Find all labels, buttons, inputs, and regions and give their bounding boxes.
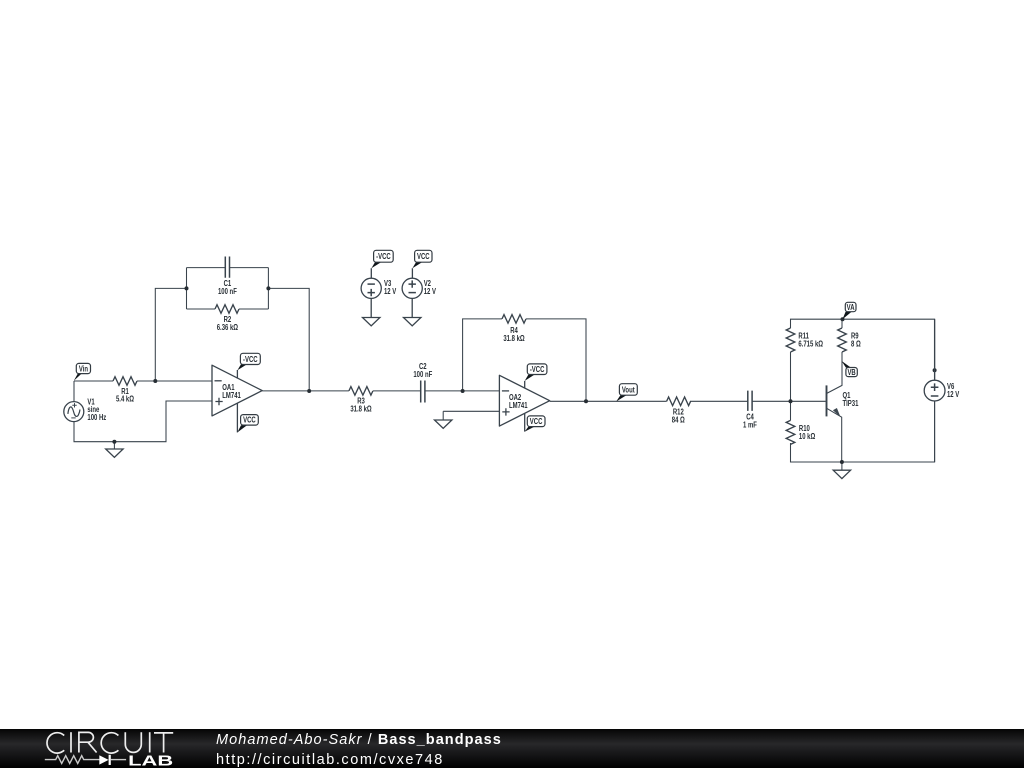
- svg-text:Vout: Vout: [622, 385, 635, 394]
- svg-text:1 mF: 1 mF: [743, 420, 757, 429]
- svg-text:31.8 kΩ: 31.8 kΩ: [350, 404, 372, 413]
- svg-text:VCC: VCC: [243, 416, 256, 425]
- svg-text:5.4 kΩ: 5.4 kΩ: [116, 395, 134, 404]
- svg-text:100 Hz: 100 Hz: [87, 413, 106, 422]
- svg-text:10 kΩ: 10 kΩ: [799, 432, 816, 441]
- svg-text:84 Ω: 84 Ω: [672, 415, 685, 424]
- svg-text:100 nF: 100 nF: [413, 370, 432, 379]
- svg-text:VCC: VCC: [530, 417, 543, 426]
- svg-text:TIP31: TIP31: [843, 399, 859, 408]
- svg-text:LM741: LM741: [222, 391, 241, 400]
- svg-text:8 Ω: 8 Ω: [851, 340, 861, 349]
- svg-text:-VCC: -VCC: [530, 365, 545, 374]
- svg-text:Vin: Vin: [79, 364, 88, 373]
- svg-text:100 nF: 100 nF: [218, 287, 237, 296]
- svg-text:LM741: LM741: [509, 401, 528, 410]
- svg-text:6.715 kΩ: 6.715 kΩ: [798, 340, 823, 349]
- svg-text:VA: VA: [847, 303, 855, 312]
- svg-text:-VCC: -VCC: [376, 252, 391, 261]
- svg-text:VCC: VCC: [417, 252, 430, 261]
- svg-text:31.8 kΩ: 31.8 kΩ: [503, 334, 525, 343]
- svg-text:VB: VB: [847, 368, 855, 377]
- svg-text:LAB: LAB: [128, 752, 173, 768]
- svg-text:6.36 kΩ: 6.36 kΩ: [217, 323, 239, 332]
- svg-text:12 V: 12 V: [947, 390, 960, 399]
- svg-text:-VCC: -VCC: [243, 355, 258, 364]
- svg-text:12 V: 12 V: [384, 287, 397, 296]
- svg-text:12 V: 12 V: [424, 287, 437, 296]
